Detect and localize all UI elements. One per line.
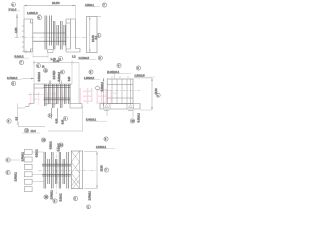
svg-text:1.50±0.5: 1.50±0.5 <box>135 74 146 78</box>
svg-text:11.40: 11.40 <box>53 59 60 63</box>
svg-text:5.40±0.2: 5.40±0.2 <box>101 81 104 91</box>
svg-text:2.54±0.1: 2.54±0.1 <box>22 151 25 161</box>
svg-text:0.70±0.1: 0.70±0.1 <box>7 76 18 80</box>
svg-text:4.90: 4.90 <box>68 76 71 81</box>
svg-text:5.80±0.3: 5.80±0.3 <box>38 71 41 81</box>
svg-text:2.54±0.1: 2.54±0.1 <box>15 171 18 181</box>
svg-text:4.5±0.2: 4.5±0.2 <box>36 149 39 158</box>
svg-text:2.54±0.1: 2.54±0.1 <box>51 189 54 199</box>
svg-text:1.50±0.5: 1.50±0.5 <box>84 76 95 80</box>
svg-text:0.60: 0.60 <box>62 119 64 124</box>
svg-text:0.60: 0.60 <box>57 118 59 123</box>
svg-text:26.50: 26.50 <box>52 1 60 5</box>
svg-text:5.0±0.2: 5.0±0.2 <box>58 143 61 152</box>
svg-text:2.54±0.1: 2.54±0.1 <box>96 145 107 149</box>
svg-text:1.60±1.0: 1.60±1.0 <box>27 11 38 15</box>
svg-text:15.30: 15.30 <box>101 165 104 172</box>
svg-text:2.54±0.1: 2.54±0.1 <box>89 190 92 200</box>
svg-text:5.0±0.2: 5.0±0.2 <box>15 55 24 59</box>
svg-text:1.2: 1.2 <box>72 55 76 59</box>
svg-text:5.40±0.1: 5.40±0.1 <box>86 118 97 122</box>
svg-text:4.50: 4.50 <box>14 27 18 33</box>
svg-text:4.5±0.1: 4.5±0.1 <box>85 3 94 7</box>
svg-text:14.5±0.5: 14.5±0.5 <box>79 56 90 60</box>
svg-text:2.5 REF: 2.5 REF <box>53 70 56 79</box>
svg-text:5.0±0.1: 5.0±0.1 <box>60 193 63 202</box>
svg-text:5.40±0.2: 5.40±0.2 <box>138 112 141 122</box>
svg-text:(2.20)±0.1: (2.20)±0.1 <box>107 70 120 74</box>
svg-text:12.6: 12.6 <box>31 129 37 133</box>
svg-text:4.5±0.2: 4.5±0.2 <box>50 141 53 150</box>
